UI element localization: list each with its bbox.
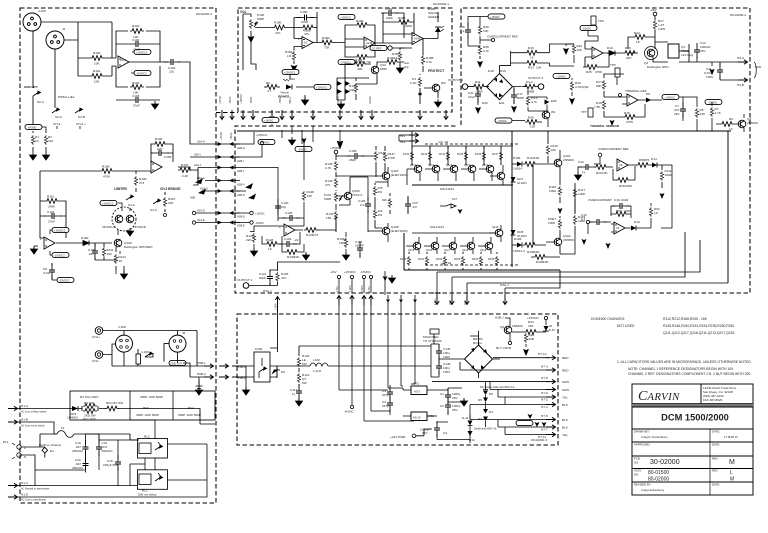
svg-text:OVERCURRENT REF: OVERCURRENT REF [598,147,629,151]
diode D4 [483,409,488,414]
capacitor C145 [436,344,442,360]
svg-text:CHANNEL 2 REF. DESIGNATORS COM: CHANNEL 2 REF. DESIGNATORS COMPLEMENT CH… [628,372,751,376]
svg-text:4 WH+: 4 WH+ [349,284,352,292]
resistor R191 [385,60,399,65]
flag -15VDC2 [57,277,74,282]
svg-text:AC Neutral to transformer: AC Neutral to transformer [21,488,50,491]
svg-text:10K: 10K [483,29,489,33]
svg-text:J-108: J-108 [118,325,126,329]
svg-text:R101: R101 [93,69,101,73]
svg-text:150: 150 [326,216,331,220]
supply +24V PWR [412,434,416,438]
title block fields [634,430,738,493]
transistor Q101 [554,159,562,167]
svg-text:A/GND: A/GND [28,126,36,130]
svg-text:240K: 240K [48,205,56,209]
diode chain D6 [483,388,488,390]
corridor labels [190,133,268,228]
diode D106 [512,163,517,165]
svg-text:4.7k: 4.7k [483,49,489,53]
svg-text:H2B-H: H2B-H [237,146,245,150]
feedback R110 [40,201,66,238]
flag +15VDC1 right [314,84,331,89]
svg-text:R2: R2 [266,81,270,85]
rail x533 [532,164,534,245]
resistor R102 [130,29,144,34]
switch S4-B [153,199,161,204]
resistor R20 [594,165,608,170]
svg-text:RL2: RL2 [144,435,150,439]
svg-text:R13: R13 [528,66,534,70]
resistor R135 [374,151,377,161]
svg-text:2N5460: 2N5460 [747,121,758,125]
op-amp A5 [284,224,295,236]
resistor R142 [411,146,413,165]
svg-text:OP100-B: OP100-B [133,225,146,229]
fuse J106 [136,354,141,364]
svg-text:1.0yH: 1.0yH [313,369,321,373]
svg-text:R189: R189 [355,58,363,62]
svg-text:YEL: YEL [562,433,568,437]
ground arrow [610,117,615,126]
capacitor C2 [445,398,451,414]
svg-text:DATE:: DATE: [712,430,720,434]
wire L100 [295,346,431,366]
pin H6-2 [409,139,419,143]
resistor PHET [558,219,561,229]
resistor R211 [660,171,663,181]
svg-text:H2B-D: H2B-D [237,215,245,219]
svg-text:NOTE: CHANNEL 1 REFERENCE DES: NOTE: CHANNEL 1 REFERENCE DESIGNATORS BE… [628,367,734,371]
ground arrows [582,236,587,245]
svg-text:NO:: NO: [634,461,639,465]
resistor R121 [164,192,166,212]
resistor R116 [558,186,561,196]
wire opamp to Q100 [56,242,112,244]
svg-text:DCM 1500/2000: DCM 1500/2000 [661,413,729,423]
flag +16VDC2 top [100,200,117,205]
svg-text:10K: 10K [551,148,557,152]
svg-text:R180: R180 [274,21,282,25]
svg-text:5550: 5550 [380,67,387,71]
ground arrow [302,97,309,105]
main HV rail [237,130,731,132]
resistor R13 [525,61,539,66]
svg-text:2 WH+: 2 WH+ [361,284,364,292]
svg-text:80-02000-4: 80-02000-4 [730,13,746,17]
capacitor C168 [347,153,365,159]
board outline box D (power supply 80-02000-3) [237,314,558,445]
svg-text:D9: D9 [281,370,285,374]
ground arrow [563,46,569,55]
svg-text:clip: clip [404,65,409,69]
svg-text:C125: C125 [285,211,293,215]
svg-text:27pF: 27pF [48,220,55,224]
svg-text:MJL21194: MJL21194 [430,225,444,229]
flag +HVDC [553,73,570,78]
resistor R50 [636,163,650,168]
notes text DCM1900 changes [591,317,752,376]
pin H1-A [8,406,18,410]
svg-text:M: M [730,477,734,483]
svg-text:AC Line out to switch: AC Line out to switch [21,425,45,428]
svg-text:270P: 270P [301,20,308,24]
svg-text:AC Line to transformer: AC Line to transformer [21,499,46,502]
svg-text:+16VDC: +16VDC [264,120,274,123]
svg-text:4 BR+: 4 BR+ [336,285,339,292]
diode pair D10 [337,78,345,100]
diode CR4 [72,406,78,411]
svg-text:R22: R22 [634,31,640,35]
ground arrow [475,105,481,114]
diode D107 [511,177,516,182]
svg-text:H7-7: H7-7 [541,428,548,432]
svg-text:H2B: H2B [190,196,195,200]
svg-text:R146: R146 [475,152,482,156]
flag +15VDC [662,94,679,99]
svg-text:DATE:: DATE: [712,443,720,447]
resistor P4 [418,77,421,87]
svg-text:2 BR+: 2 BR+ [434,298,437,305]
op-amp A2-B [364,37,375,49]
resistor R113 [115,247,117,270]
arrow junction [558,203,563,214]
svg-text:DC7: DC7 [452,197,458,201]
capacitor C100 [128,41,146,47]
relay RL2 [138,439,168,459]
resistor R1411 [462,252,464,270]
capacitor C4 [387,385,393,401]
resistor R3 pair [82,406,98,411]
svg-text:APPROVED:: APPROVED: [634,443,651,447]
svg-text:100: 100 [530,125,535,129]
svg-text:220K: 220K [405,24,413,28]
flag TP6 [591,16,596,25]
svg-text:80-02000: 80-02000 [648,477,669,483]
svg-text:H3A-J: H3A-J [500,283,509,287]
rail x512 [511,131,513,267]
pin H3A-D [465,295,469,305]
pin H3A-J out1 [275,297,279,307]
svg-text:100V: 100V [443,355,451,359]
resistor R144 [447,146,449,165]
svg-text:E01: E01 [499,101,505,105]
wire bridge [439,331,500,378]
flag +15VDC lower [495,118,512,123]
svg-text:S2-A: S2-A [55,115,63,119]
wire opamp out [160,62,210,144]
ground arrow P100 [248,35,255,43]
svg-text:26V: 26V [452,396,458,400]
svg-text:OUTPUT 2: OUTPUT 2 [528,76,544,80]
svg-text:047y: 047y [382,393,389,397]
svg-text:+24V PWR: +24V PWR [390,435,406,439]
svg-text:Q111: Q111 [428,163,435,167]
wire bottom bus [437,232,728,288]
svg-text:H3A-J: H3A-J [263,289,272,293]
svg-text:DATE:: DATE: [712,483,720,487]
svg-text:+16VDC2: +16VDC2 [54,229,66,233]
capacitor C8 [51,263,53,280]
svg-text:100K: 100K [548,221,556,225]
svg-text:Rb0: Rb0 [143,406,149,410]
ground arrow [435,99,442,107]
capacitor C12 [694,43,700,59]
transistor Q116 MJL21194 [431,242,439,250]
svg-text:C2: C2 [440,404,444,408]
resistor R183 [320,40,334,45]
svg-text:TP10-C: TP10-C [352,193,363,197]
svg-text:Q112: Q112 [446,163,453,167]
resistor R2 [45,131,47,152]
pin H6B rows [219,364,229,368]
capacitor C120 [275,199,281,215]
svg-text:22K: 22K [168,201,174,205]
resistor R147 [500,146,502,165]
svg-text:D106: D106 [513,156,521,160]
svg-text:N/U 115V: N/U 115V [83,417,97,421]
resistor R1413 [496,252,498,270]
svg-text:Rb4: Rb4 [188,406,194,410]
capacitor C122 [357,241,363,257]
resistor R101 [90,74,104,79]
svg-text:H1-D: H1-D [21,493,29,497]
resistor R118 [546,145,549,155]
svg-text:H6B-1: H6B-1 [197,361,206,365]
svg-text:+15VDC: +15VDC [556,75,566,79]
base rail top [407,146,501,185]
svg-text:M: M [729,459,735,466]
svg-text:R145,R146,R150,R151,R234,R235,: R145,R146,R150,R151,R234,R235,R250,R251 [663,324,735,328]
transistor Q110 MJL21193 [414,165,422,173]
svg-text:10K: 10K [602,171,608,175]
svg-text:N: N [24,455,26,459]
svg-text:Q116: Q116 [426,248,433,252]
resistor R5 [695,108,698,118]
capacitor C20 [85,458,87,470]
svg-text:H7-4: H7-4 [541,405,548,409]
transistor Q10 [371,66,379,74]
bus labels vertical [434,298,467,305]
flag -15VDC [705,99,722,104]
diode D8 [646,98,651,103]
resistor R106 [100,169,114,174]
svg-text:+15VDC1: +15VDC1 [284,71,296,75]
flag -15VDC2 [134,70,151,75]
svg-text:D108: D108 [517,230,524,234]
svg-text:C124: C124 [284,237,292,241]
svg-text:4.7K: 4.7K [325,166,332,170]
svg-text:GREEN: GREEN [428,15,439,19]
board outline box B (80-82009-1) [238,8,452,112]
resistor R6 [720,122,734,127]
svg-text:J1: J1 [62,27,66,31]
top emitter resistor rail [412,131,513,146]
wire H1-A [17,409,215,425]
svg-text:1N914-4: 1N914-4 [513,249,525,253]
pin H4-A fan [738,60,748,64]
diode E05 [545,100,550,105]
svg-text:CH1-: CH1- [92,359,99,363]
resistor R186 [397,20,411,25]
svg-text:10K: 10K [577,48,583,52]
flag A/GND [25,124,42,129]
transistor Q100 [114,239,122,247]
ground [152,101,159,109]
svg-text:C168: C168 [349,149,357,153]
ground arrow [511,104,517,113]
svg-text:OVERCURRENT: OVERCURRENT [588,198,612,202]
svg-text:16K: 16K [528,324,534,328]
svg-text:OP100-A: OP100-A [102,225,116,229]
LED D180 signal [423,12,438,55]
resistor R149 [426,252,428,270]
svg-text:THERMAL REF.: THERMAL REF. [625,89,647,93]
resistor R189 [353,62,367,67]
svg-text:CARVIN: CARVIN [638,389,680,404]
svg-text:R50: R50 [616,209,622,213]
svg-text:R112,R212,R186,R205 - 16K: R112,R212,R186,R205 - 16K [663,317,708,321]
resistor R12 [523,84,537,89]
svg-text:2-2K: 2-2K [410,81,417,85]
resistor R14 [527,90,529,111]
wire R107 out [192,170,198,185]
capacitor C11 [720,62,738,80]
svg-text:100K: 100K [549,189,557,193]
svg-text:R184: R184 [356,19,364,23]
svg-text:C16 .0022: C16 .0022 [614,198,629,202]
svg-text:+16VDC2: +16VDC2 [102,202,114,206]
svg-text:H7-8: H7-8 [541,376,548,380]
svg-text:H4-B: H4-B [737,83,744,87]
flag GND OUT [169,360,186,365]
svg-text:BLK: BLK [562,403,569,407]
capacitor C21 [86,434,100,470]
svg-text:HS-3: HS-3 [414,390,420,394]
transistor Q5 [542,111,550,119]
svg-text:U6: U6 [619,163,623,167]
diode D5 [483,398,488,403]
svg-text:L100: L100 [313,358,320,362]
capacitor C16 [117,440,119,486]
svg-text:260PF: 260PF [355,244,364,248]
resistor R51 [614,212,628,217]
resistor R105 [523,243,537,248]
svg-text:500 ms delay: 500 ms delay [138,493,157,497]
svg-text:P128: P128 [266,238,274,242]
pin H6-1 [409,133,419,137]
svg-text:4.7: 4.7 [267,89,272,93]
resistor R180 [273,25,287,30]
flag TP5 [615,68,620,77]
svg-text:H5B-J: H5B-J [289,97,292,104]
resistor R52 [649,207,652,217]
svg-text:Q115: Q115 [408,248,415,252]
svg-text:36V: 36V [422,431,428,435]
svg-text:H6-1: H6-1 [400,135,406,138]
transistor Q119 MJL21194 [485,242,493,250]
resistor R35 [525,120,539,125]
resistor R182 [294,47,302,65]
pin H3A-J [503,295,507,305]
diode D11 [468,421,473,426]
op-amp A3-B [412,33,423,45]
svg-text:H2B-E: H2B-E [237,224,245,228]
svg-text:Q113: Q113 [464,163,471,167]
title block [632,384,753,495]
wire [33,22,112,108]
svg-text:.047: .047 [412,205,418,209]
capacitor C106 [94,243,96,260]
binding post CH1+ [95,327,103,335]
svg-text:R100: R100 [387,56,395,60]
pin H6B-2 [204,375,214,379]
resistor R145 [465,146,467,165]
resistor R185 [355,55,369,60]
svg-text:1/2W: 1/2W [658,27,665,31]
flag +HVDC lower [258,139,275,144]
resistor R184 [355,23,369,28]
ground arrow [710,64,715,75]
feedback R28 [613,165,637,180]
transistor Q112 MJL21193 [450,165,458,173]
svg-text:VOL: VOL [240,10,247,14]
svg-text:250VAC: 250VAC [72,449,84,453]
svg-text:S4-A: S4-A [128,203,136,207]
wire PL1 [21,434,85,470]
capacitor C107 [407,196,409,214]
ground arrow [291,64,298,72]
op-amp A2-A [302,37,313,49]
svg-text:TP5: TP5 [610,63,616,67]
resistor R125 vertical [302,191,305,201]
svg-text:R151: R151 [418,257,425,261]
svg-text:+15VDC1: +15VDC1 [316,86,328,90]
svg-text:100V: 100V [706,75,714,79]
capacitor C105 [151,150,169,156]
svg-text:H4-A: H4-A [737,56,745,60]
resistor R136 [334,161,337,171]
svg-text:-22: -22 [294,238,299,242]
resistor R15 [525,50,539,55]
svg-text:R110: R110 [47,195,54,199]
svg-text:27pF: 27pF [133,48,140,52]
ground [196,387,203,395]
svg-text:R26: R26 [625,46,631,50]
resistor R148 [408,252,410,270]
capacitor C7 [680,102,686,118]
svg-text:D9: D9 [291,77,295,81]
svg-text:270: 270 [325,183,330,187]
svg-text:R144: R144 [439,152,446,156]
svg-text:BLK: BLK [562,426,569,430]
ground [461,398,468,406]
bus supply flags under B [262,117,279,122]
ground [397,65,404,73]
regulator Q1 [668,44,679,58]
svg-text:2.2K: 2.2K [182,174,189,178]
svg-text:16K: 16K [339,241,345,245]
op-amp A1-B [151,161,162,173]
capacitor C19 [85,434,87,470]
svg-text:49K: 49K [357,67,363,71]
svg-text:D5: D5 [478,398,482,402]
svg-text:Q114: Q114 [482,163,489,167]
diode D9 [286,85,292,90]
ground [303,252,310,260]
resistor R26 [623,51,637,56]
svg-text:H7-11: H7-11 [538,435,546,439]
